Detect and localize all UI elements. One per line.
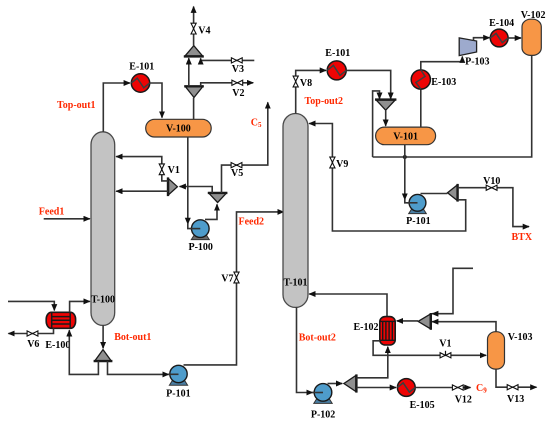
- wire T-100 bottom outlet: [102, 325, 104, 348]
- svg-text:BTX: BTX: [512, 232, 533, 243]
- wire reflux via V9 to T-101: [309, 124, 466, 232]
- heat exchanger E-104: [489, 18, 514, 47]
- splitter (left triangle after P-102): [344, 374, 357, 392]
- vessel V-101: [376, 127, 436, 145]
- svg-text:V-102: V-102: [521, 10, 546, 21]
- splitter (up triangle below T-100): [94, 350, 113, 362]
- svg-text:Top-out2: Top-out2: [305, 96, 344, 107]
- wire V5 line to C5 vent: [222, 102, 268, 192]
- svg-text:C9: C9: [476, 383, 487, 395]
- reboiler E-100: [45, 312, 75, 351]
- mixer (down triangle under V5): [208, 193, 228, 203]
- svg-text:V4: V4: [198, 25, 210, 36]
- svg-text:P-101: P-101: [406, 216, 430, 227]
- svg-text:Top-out1: Top-out1: [57, 100, 96, 111]
- label Bot-out1: [114, 332, 151, 343]
- label Top-out2: [305, 96, 344, 107]
- splitter (left triangle near V10): [448, 184, 458, 202]
- wire E-103 to P-103: [421, 57, 463, 70]
- svg-text:V9: V9: [336, 159, 348, 170]
- valve V6: [27, 331, 39, 350]
- splitter (down triangle above V-100): [184, 86, 204, 97]
- wire T-101 top via V8 to E-101: [296, 70, 326, 113]
- wire splitter via V1 to column: [116, 157, 168, 181]
- svg-text:V6: V6: [27, 339, 39, 350]
- svg-text:V8: V8: [300, 78, 312, 89]
- wire P-101 to T-101 feed via V7: [184, 212, 284, 365]
- wire T-101 bottom to P-102: [297, 307, 324, 392]
- svg-text:P-102: P-102: [311, 409, 335, 420]
- label C5: [251, 117, 262, 129]
- compressor P-103: [459, 38, 489, 68]
- svg-text:P-103: P-103: [465, 56, 489, 67]
- pump P-101 (left): [166, 365, 190, 399]
- svg-text:V10: V10: [483, 176, 500, 187]
- svg-text:V1: V1: [168, 165, 180, 176]
- svg-text:E-101: E-101: [325, 48, 350, 59]
- wire splitter to V-100 top: [193, 98, 195, 120]
- valve V2: [232, 80, 245, 99]
- wire P-102 outlet to splitter: [328, 383, 343, 385]
- svg-text:V-101: V-101: [393, 131, 418, 142]
- wire splitter leg to E-100 bottom: [69, 330, 98, 374]
- wire E-102 bottoms via V1 to V-103: [373, 341, 486, 356]
- svg-text:P-100: P-100: [188, 242, 212, 253]
- valve V4: [191, 23, 211, 36]
- svg-text:E-103: E-103: [431, 77, 456, 88]
- svg-text:V13: V13: [507, 394, 524, 405]
- valve V5: [231, 163, 243, 180]
- vessel V-103: [488, 332, 533, 369]
- wire E-101 to V-100: [150, 83, 162, 118]
- svg-text:T-100: T-100: [91, 295, 115, 306]
- heat exchanger E-103: [411, 70, 456, 89]
- wire splitter up to E-102: [356, 347, 387, 378]
- svg-text:E-100: E-100: [45, 340, 70, 351]
- wire mixer to E-102: [397, 320, 418, 322]
- svg-text:V3: V3: [232, 64, 244, 75]
- wire E-105 via V12 to C9: [415, 387, 470, 389]
- wire feed to E-100 top: [8, 301, 54, 310]
- wire hook stub to mixer: [432, 268, 473, 313]
- wire E-104 to V-102: [508, 37, 521, 39]
- wire splitter via V10 to BTX: [458, 188, 529, 227]
- mixer (up triangle, vent): [184, 46, 204, 57]
- svg-text:Feed1: Feed1: [39, 207, 65, 218]
- heat exchanger E-105: [397, 379, 434, 412]
- wire splitter to E-105: [356, 387, 396, 389]
- splitter (right triangle): [168, 177, 177, 196]
- wire vent V4 up: [193, 7, 195, 46]
- pump P-102: [311, 384, 335, 421]
- svg-text:V5: V5: [231, 168, 243, 179]
- wire V-103 bottom via V13 out: [496, 369, 537, 387]
- valve V13: [507, 385, 524, 405]
- wire T-100 top to E-101: [103, 83, 130, 132]
- pump P-100: [188, 220, 212, 253]
- heat exchanger E-101 (left): [129, 62, 154, 93]
- wire splitter to column lower: [116, 190, 168, 192]
- svg-text:P-101: P-101: [166, 388, 190, 399]
- svg-text:E-101: E-101: [129, 62, 154, 73]
- svg-text:Bot-out2: Bot-out2: [299, 333, 336, 344]
- svg-text:V1: V1: [439, 339, 451, 350]
- column T-100: [91, 132, 115, 326]
- valve V1 (right): [439, 339, 451, 358]
- svg-text:Feed2: Feed2: [239, 216, 265, 227]
- wire mixer to V-101: [385, 110, 387, 126]
- wire P-103 to E-104: [474, 38, 490, 41]
- svg-text:C5: C5: [251, 117, 262, 129]
- wire splitter to mixer (vertical): [188, 58, 190, 86]
- svg-text:V-103: V-103: [508, 332, 533, 343]
- svg-text:E-102: E-102: [354, 322, 379, 333]
- label Top-out1: [57, 100, 96, 111]
- label BTX: [512, 232, 533, 243]
- label Feed1: [39, 207, 65, 218]
- svg-text:Bot-out1: Bot-out1: [114, 332, 151, 343]
- heat exchanger E-102: [354, 317, 396, 345]
- valve V8: [293, 76, 312, 89]
- wire V2 branch: [201, 83, 254, 87]
- valve V3: [231, 58, 244, 75]
- wire V-101 bottom to P-101: [405, 145, 418, 203]
- wire splitter leg to P-101: [108, 361, 179, 374]
- mixer (down triangle above V-101): [375, 100, 396, 111]
- valve V9: [330, 157, 349, 170]
- wire V-100 bottom to P-100: [188, 137, 201, 229]
- wire mixer to splitter (horizontal): [180, 187, 213, 193]
- Feed1 arrow: [44, 218, 90, 220]
- wire E-101 to mixer: [346, 70, 391, 98]
- svg-text:V-100: V-100: [166, 124, 191, 135]
- wire E-100 bottoms out via V6: [8, 328, 53, 333]
- label Feed2: [239, 216, 265, 227]
- svg-text:T-101: T-101: [283, 278, 307, 289]
- heat exchanger E-101 (right): [325, 48, 350, 80]
- valve V1: [159, 164, 180, 176]
- wire V-103 overhead to mixer: [432, 322, 496, 332]
- valve V10: [483, 176, 500, 190]
- wire P-101 outlet to splitter: [421, 193, 448, 195]
- wire V3 branch: [201, 58, 255, 60]
- wire V-101 to E-103: [420, 89, 422, 127]
- wire P-100 outlet to mixer above: [205, 204, 217, 219]
- svg-text:V2: V2: [232, 88, 244, 99]
- svg-text:E-105: E-105: [410, 400, 435, 411]
- svg-text:V12: V12: [455, 394, 472, 405]
- wire V-102 bottom recycle: [373, 55, 532, 157]
- pump P-101 (right): [406, 194, 430, 227]
- svg-text:E-104: E-104: [489, 18, 514, 29]
- vessel V-100: [146, 119, 212, 137]
- label C9: [476, 383, 487, 395]
- junction node: [403, 155, 407, 159]
- mixer (left triangle right of E-102): [418, 313, 431, 330]
- valve V7: [221, 272, 239, 284]
- wire recycle hook to mixer: [373, 91, 380, 157]
- wire T-101 side draw to E-102: [309, 294, 387, 317]
- svg-text:V7: V7: [221, 273, 233, 284]
- vessel V-102: [521, 10, 546, 56]
- label Bot-out2: [299, 333, 336, 344]
- wire E-100 to column return: [70, 301, 90, 312]
- column T-101: [283, 114, 308, 308]
- valve V12: [452, 385, 472, 406]
